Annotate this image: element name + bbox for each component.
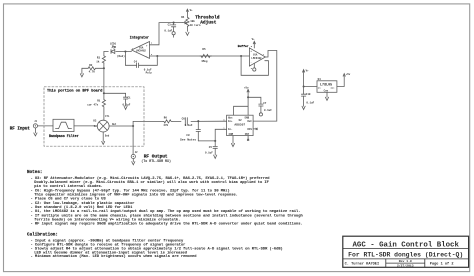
connector J1 (RF Input)	[33, 120, 37, 128]
svg-text:R3: R3	[97, 57, 101, 60]
node junction RF out tap	[132, 125, 134, 127]
svg-text:R5: R5	[202, 48, 206, 51]
svg-text:LMC6482: LMC6482	[136, 50, 147, 53]
connector J2 (RF Output)	[131, 151, 138, 159]
analog ground (below C7)	[259, 113, 262, 116]
analog ground (below C3)	[172, 32, 175, 35]
svg-text:U2: U2	[239, 119, 243, 122]
svg-text:This portion on BPF board: This portion on BPF board	[47, 88, 102, 93]
node C4 right tap	[156, 55, 158, 57]
wire corner down into R3	[103, 52, 105, 56]
bandpass filter FL1	[53, 119, 74, 131]
svg-text:1k: 1k	[96, 59, 100, 63]
ground (below C1)	[124, 99, 127, 109]
wire down to J2	[132, 126, 134, 154]
resistor R3	[96, 56, 105, 64]
svg-text:INT: INT	[245, 133, 250, 136]
V- arrow (left of R2)	[80, 68, 83, 77]
svg-text:+: +	[250, 50, 252, 53]
svg-text:V+: V+	[190, 9, 194, 12]
svg-text:2/27/2013: 2/27/2013	[397, 264, 414, 268]
svg-text:OFS: OFS	[247, 128, 252, 131]
svg-text:0.1uF: 0.1uF	[264, 109, 272, 112]
svg-text:C8: C8	[186, 134, 190, 137]
svg-text:U3: U3	[93, 119, 97, 122]
svg-text:(Red): (Red)	[117, 54, 125, 58]
svg-text:- Minimum attenuation (Max. LE: - Minimum attenuation (Max. LED brightne…	[31, 254, 197, 259]
svg-text:+: +	[146, 45, 148, 48]
svg-text:Buffer: Buffer	[238, 44, 249, 48]
svg-text:C. Turner KA7OEI: C. Turner KA7OEI	[345, 261, 380, 266]
svg-text:J2: J2	[135, 151, 138, 154]
node C3 tap	[173, 22, 175, 24]
resistor R6	[163, 116, 172, 127]
+5v (regulator output)	[343, 74, 345, 77]
dashed box: This portion on BPF board	[44, 87, 144, 146]
svg-text:R1: R1	[97, 99, 101, 102]
ground (below C5)	[214, 155, 217, 158]
svg-text:See Notes: See Notes	[180, 138, 196, 141]
capacitor C5	[205, 141, 217, 155]
svg-text:- RF input signal may require: - RF input signal may require 30dB ampli…	[31, 222, 303, 227]
LED1	[110, 43, 125, 59]
title block	[343, 236, 469, 267]
buffer feedback loop	[241, 56, 268, 75]
node C5 tap	[214, 140, 216, 142]
svg-text:C4: C4	[134, 61, 138, 64]
svg-text:7: 7	[263, 53, 265, 56]
svg-text:Com: Com	[324, 89, 329, 92]
wire mixer out to junction	[109, 125, 133, 127]
svg-text:-: -	[250, 61, 252, 64]
svg-text:(To RTL-SDR RX): (To RTL-SDR RX)	[141, 159, 171, 163]
svg-text:0.1uF: 0.1uF	[164, 29, 172, 32]
svg-text:cur 47x: cur 47x	[87, 104, 98, 107]
ground (below R4)	[186, 32, 189, 35]
svg-text:AGC - Gain Control Block: AGC - Gain Control Block	[352, 241, 459, 249]
buffer output wire	[253, 51, 277, 122]
resistor R1	[87, 93, 105, 120]
svg-text:Gnd: Gnd	[105, 134, 110, 137]
op-amp U1B buffer	[238, 44, 266, 70]
svg-text:R6: R6	[164, 116, 168, 119]
svg-text:In-: In-	[228, 128, 233, 131]
node R2 junction	[103, 67, 105, 69]
svg-text:3: 3	[151, 42, 153, 45]
svg-text:Bandpass Filter: Bandpass Filter	[49, 134, 79, 138]
svg-text:Calibration:: Calibration:	[27, 233, 58, 238]
resistor R5	[200, 48, 212, 63]
svg-text:C5: C5	[209, 146, 213, 149]
svg-text:C10: C10	[306, 93, 311, 96]
IC U4 L78L05	[317, 78, 337, 92]
svg-text:+5v: +5v	[244, 86, 249, 89]
svg-text:R4: R4	[181, 16, 185, 19]
V+ (above R4)	[186, 9, 188, 13]
svg-text:C3: C3	[168, 24, 172, 27]
ground (below C10)	[302, 106, 305, 109]
resistor R2	[82, 64, 104, 74]
wire C8 bottom rail	[198, 140, 215, 142]
svg-text:Poly: Poly	[146, 71, 153, 75]
ground (below mixer U3)	[102, 132, 105, 144]
svg-text:V+: V+	[306, 69, 310, 72]
svg-text:C7: C7	[263, 102, 267, 105]
wire J1 to bandpass filter	[38, 125, 54, 127]
node C10 tap	[303, 85, 305, 87]
OFS stub unconnected	[253, 128, 257, 130]
pin stubs Vps/ENB to +5v	[234, 97, 249, 115]
node C8 tap	[197, 120, 199, 122]
capacitor C4 feedback	[125, 51, 157, 74]
svg-text:0.1uF: 0.1uF	[306, 102, 314, 105]
potentiometer R4	[181, 13, 201, 31]
wire R6/C4 line to detector	[172, 120, 227, 122]
svg-text:0.1uF: 0.1uF	[205, 151, 213, 154]
analog ground (below buffer)	[253, 63, 255, 68]
wire regulator out	[337, 76, 344, 87]
svg-text:ENB: ENB	[245, 116, 250, 119]
svg-text:Out: Out	[247, 120, 252, 123]
svg-text:AD8307: AD8307	[234, 123, 245, 126]
IC U2 AD8307 log detector	[223, 115, 253, 136]
svg-text:J1: J1	[34, 120, 37, 123]
wire to C1	[104, 93, 126, 97]
wire to In- pin	[215, 129, 226, 141]
wire jog up to R6 line	[133, 121, 163, 126]
capacitor C7	[248, 97, 272, 113]
node C4 tap on output wire	[124, 50, 126, 52]
op-amp U1A integrator	[130, 36, 153, 59]
svg-text:Vps: Vps	[228, 116, 233, 119]
svg-text:1Meg: 1Meg	[201, 60, 208, 63]
wire R3 to junction	[103, 63, 105, 68]
svg-text:Notes:: Notes:	[27, 170, 42, 175]
calibration text	[27, 233, 283, 260]
V+ (above buffer)	[253, 41, 255, 48]
node C7 tap	[247, 96, 249, 98]
ground (below regulator)	[325, 92, 328, 100]
wire to regulator	[304, 86, 317, 88]
svg-text:0.1uF: 0.1uF	[185, 124, 193, 127]
wire +input to threshold pot	[150, 23, 183, 45]
svg-text:Integrator: Integrator	[130, 36, 149, 40]
wire -input long rail	[150, 55, 250, 57]
ground (below J1)	[34, 128, 37, 136]
svg-text:Adjust: Adjust	[200, 19, 217, 25]
notes text	[27, 170, 303, 226]
svg-text:In+: In+	[228, 120, 233, 123]
svg-text:V+: V+	[252, 38, 256, 41]
svg-text:+5v: +5v	[346, 73, 351, 76]
mixer U3	[93, 115, 117, 137]
svg-text:Out: Out	[331, 87, 336, 90]
INT stub unconnected	[247, 136, 249, 141]
ground (below J2)	[132, 159, 135, 165]
node C1 tap	[103, 92, 105, 94]
svg-text:470: 470	[163, 124, 168, 127]
svg-text:R2: R2	[89, 64, 93, 67]
wire filter to mixer	[74, 125, 97, 127]
wire down to R1	[103, 68, 105, 93]
svg-text:5: 5	[251, 45, 253, 48]
svg-text:C6: C6	[182, 117, 186, 120]
svg-text:CTL: CTL	[105, 115, 110, 118]
svg-text:LMC6482: LMC6482	[251, 57, 262, 60]
svg-text:-: -	[146, 56, 148, 59]
svg-text:For RTL-SDR dongles (Direct-Q): For RTL-SDR dongles (Direct-Q)	[348, 252, 463, 259]
svg-text:RF Input: RF Input	[10, 128, 31, 132]
svg-text:Page 1 of 2: Page 1 of 2	[430, 261, 454, 266]
capacitor C3	[164, 23, 175, 33]
+5v (above U2)	[247, 89, 249, 97]
V+ (regulator input)	[303, 70, 305, 87]
capacitor C8	[180, 121, 201, 141]
capacitor C1	[123, 96, 132, 106]
capacitor C6 coupling	[182, 117, 193, 127]
ground (below COM)	[231, 136, 234, 147]
svg-text:LED1: LED1	[110, 43, 117, 46]
wire integrator output / LED row	[104, 51, 132, 53]
node buffer input	[240, 55, 242, 57]
capacitor C10	[301, 87, 314, 107]
